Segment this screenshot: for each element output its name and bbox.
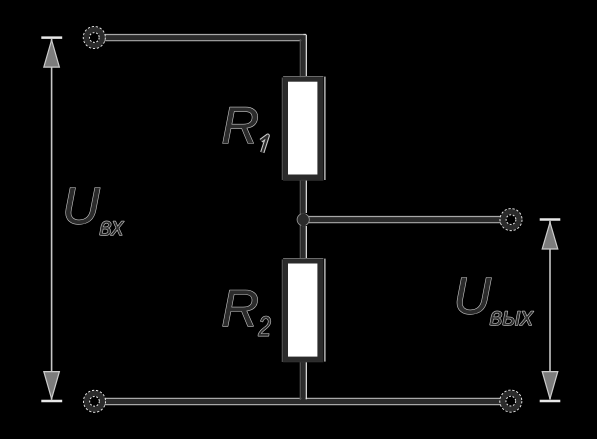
wire vertical stub from R2 bottom to bottom rail bbox=[300, 362, 306, 402]
terminal input top-left bbox=[84, 27, 106, 49]
dimension line for Uvyx on the right bbox=[540, 220, 561, 402]
terminal input bottom-left bbox=[84, 391, 106, 413]
terminal output bottom-right bbox=[500, 390, 522, 412]
wire top rail from input terminal to corner bbox=[104, 34, 306, 41]
label U vx input voltage bbox=[66, 188, 124, 236]
resistor R1 bbox=[282, 77, 325, 181]
terminal output middle-right bbox=[500, 209, 522, 231]
resistor R2 bbox=[282, 259, 325, 362]
dimension line for Uvx on the left bbox=[41, 38, 62, 401]
label R2 bbox=[223, 290, 271, 336]
wire bottom rail bbox=[105, 398, 502, 405]
wire vertical stub from corner to R1 top bbox=[300, 35, 306, 79]
wire vertical stub from node A to R2 top bbox=[300, 218, 306, 260]
wire vertical stub from R1 bottom to node A bbox=[300, 179, 306, 221]
wire middle rail from node A to output terminal bbox=[303, 216, 501, 223]
label R1 bbox=[223, 107, 268, 152]
label U vyx output voltage bbox=[457, 278, 533, 326]
node A junction dot bbox=[297, 213, 310, 226]
